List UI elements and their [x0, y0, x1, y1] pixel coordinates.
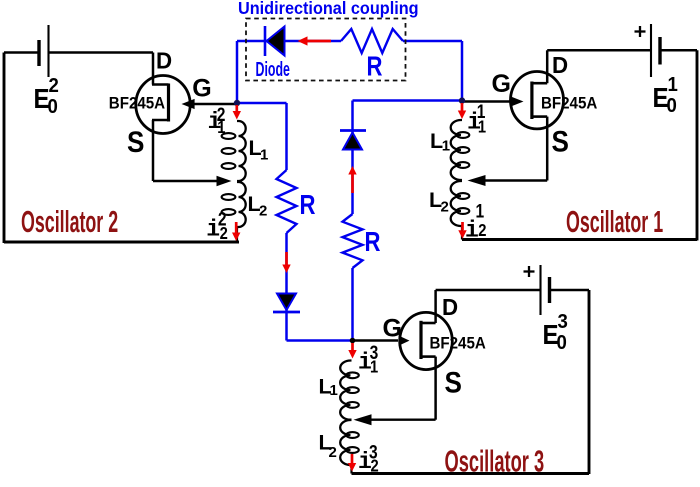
svg-text:0: 0 [557, 332, 567, 354]
svg-text:Oscillator 1: Oscillator 1 [566, 205, 663, 239]
svg-text:S: S [552, 125, 569, 158]
svg-text:D: D [156, 47, 172, 74]
svg-text:2: 2 [220, 224, 228, 244]
svg-text:S: S [445, 366, 462, 399]
svg-text:G: G [492, 70, 511, 98]
svg-text:Oscillator 2: Oscillator 2 [21, 205, 118, 239]
svg-text:2: 2 [259, 203, 267, 220]
svg-text:2: 2 [478, 221, 486, 241]
svg-text:1: 1 [668, 74, 679, 96]
svg-text:G: G [192, 75, 211, 103]
svg-text:R: R [365, 227, 381, 258]
svg-text:BF245A: BF245A [109, 94, 166, 113]
svg-text:0: 0 [667, 95, 677, 117]
svg-text:R: R [367, 51, 383, 82]
svg-text:G: G [383, 314, 402, 342]
svg-text:1: 1 [476, 200, 485, 222]
svg-text:2: 2 [329, 444, 337, 461]
svg-text:1: 1 [442, 138, 450, 155]
svg-text:2: 2 [49, 75, 59, 97]
svg-text:Diode: Diode [256, 58, 290, 81]
svg-text:1: 1 [260, 147, 268, 164]
svg-text:S: S [127, 125, 144, 158]
svg-text:R: R [300, 190, 316, 221]
svg-text:0: 0 [48, 96, 58, 118]
svg-text:D: D [442, 293, 458, 320]
svg-text:BF245A: BF245A [541, 94, 598, 113]
svg-text:BF245A: BF245A [430, 334, 487, 353]
svg-text:2: 2 [371, 456, 379, 476]
svg-text:2: 2 [441, 199, 449, 216]
svg-text:D: D [552, 51, 568, 78]
svg-text:Unidirectional coupling: Unidirectional coupling [238, 0, 419, 18]
svg-text:1: 1 [217, 117, 225, 137]
svg-text:Oscillator 3: Oscillator 3 [445, 445, 545, 479]
svg-text:3: 3 [558, 311, 569, 333]
svg-text:1: 1 [478, 117, 486, 137]
svg-text:1: 1 [330, 382, 338, 399]
svg-text:1: 1 [370, 357, 378, 377]
